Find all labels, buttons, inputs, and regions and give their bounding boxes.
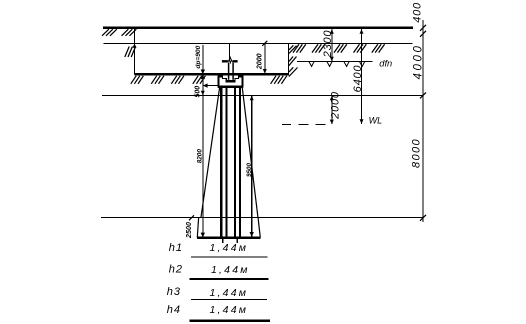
svg-text:1,44м: 1,44м xyxy=(210,287,249,299)
svg-text:2500: 2500 xyxy=(184,222,193,239)
svg-text:1,44м: 1,44м xyxy=(210,242,249,254)
svg-text:500: 500 xyxy=(194,86,201,98)
svg-text:1,44м: 1,44м xyxy=(210,304,249,316)
svg-text:2300: 2300 xyxy=(322,30,334,59)
svg-text:dfn: dfn xyxy=(379,58,392,68)
svg-text:h3: h3 xyxy=(167,286,181,298)
svg-text:WL: WL xyxy=(369,115,383,125)
svg-text:2000: 2000 xyxy=(256,53,263,70)
svg-text:h4: h4 xyxy=(167,304,181,316)
svg-text:2000: 2000 xyxy=(330,91,342,120)
svg-text:h1: h1 xyxy=(169,242,183,254)
svg-text:400: 400 xyxy=(412,2,424,23)
svg-text:1,44м: 1,44м xyxy=(211,264,250,276)
svg-text:8200: 8200 xyxy=(197,149,204,164)
svg-text:h2: h2 xyxy=(169,264,183,276)
svg-text:6400: 6400 xyxy=(352,65,364,93)
svg-text:8000: 8000 xyxy=(411,138,423,168)
svg-text:9500: 9500 xyxy=(246,163,253,177)
svg-text:dp=900: dp=900 xyxy=(195,45,202,68)
svg-text:4000: 4000 xyxy=(412,44,424,80)
